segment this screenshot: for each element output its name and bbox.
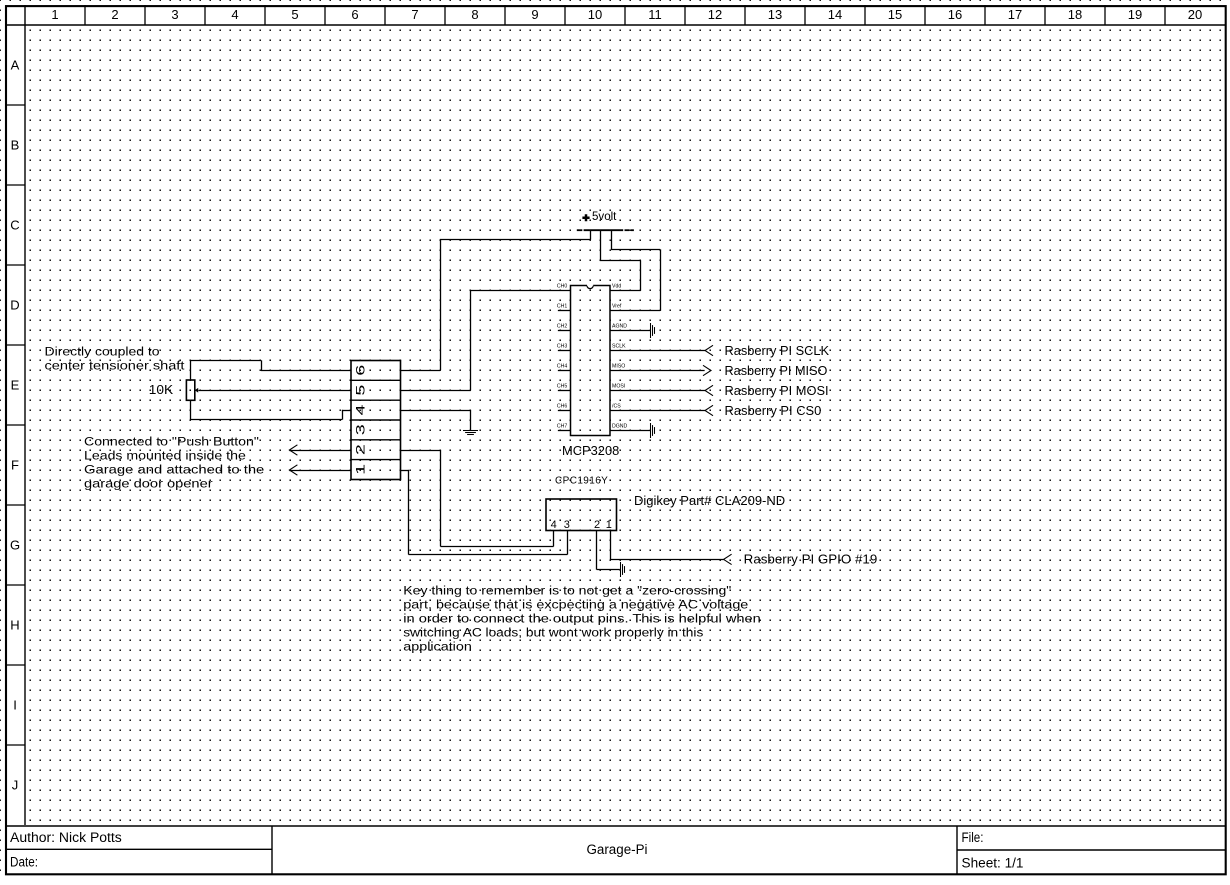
svg-text:Connected to "Push Button": Connected to "Push Button"	[84, 435, 259, 449]
svg-text:10: 10	[588, 7, 602, 22]
svg-text:center tensioner shaft: center tensioner shaft	[45, 359, 186, 373]
svg-text:2: 2	[111, 7, 118, 22]
svg-text:15: 15	[888, 7, 902, 22]
wire U1 pin CH2 stub	[558, 330, 571, 332]
svg-text:File:: File:	[962, 830, 984, 845]
arrow output MISO	[703, 365, 711, 375]
svg-text:20: 20	[1188, 7, 1202, 22]
svg-text:9: 9	[531, 7, 538, 22]
svg-text:I: I	[13, 698, 17, 713]
wire pot bottom run	[190, 419, 342, 421]
wire J1 pin6 left	[261, 370, 351, 372]
svg-text:Author: Nick Potts: Author: Nick Potts	[10, 830, 122, 845]
wire DGND pin	[610, 430, 650, 432]
wire jog up to pin4	[342, 410, 344, 420]
svg-text:MOSI: MOSI	[612, 384, 625, 390]
wire J1 pin4 right	[400, 410, 470, 412]
svg-text:2: 2	[353, 444, 367, 456]
wire pot bottom lead	[190, 400, 192, 420]
wire GPIO19	[610, 559, 724, 561]
title block	[5, 826, 1226, 874]
svg-text:CPC1916Y: CPC1916Y	[555, 475, 608, 486]
svg-text:Key thing to remember is to no: Key thing to remember is to not get a "z…	[403, 584, 731, 598]
ground DGND	[651, 423, 655, 438]
svg-text:MCP3208: MCP3208	[562, 444, 619, 458]
wire U1 pin CH3 stub	[558, 350, 571, 352]
svg-text:13: 13	[768, 7, 782, 22]
svg-text:14: 14	[828, 7, 842, 22]
svg-text:part, because that is excpecti: part, because that is excpecting a negat…	[403, 598, 748, 612]
svg-text:5: 5	[291, 7, 298, 22]
svg-text:Leads mounted inside the: Leads mounted inside the	[84, 449, 246, 463]
svg-text:Digikey Part# CLA209-ND: Digikey Part# CLA209-ND	[634, 494, 785, 508]
svg-text:5: 5	[353, 384, 367, 396]
wire Vdd horizontal	[600, 260, 641, 262]
svg-text:1: 1	[353, 463, 367, 475]
svg-text:18: 18	[1068, 7, 1082, 22]
svg-text:CH3: CH3	[557, 344, 567, 350]
arrow input SCLK	[705, 345, 713, 355]
wire to pot top	[190, 360, 261, 362]
wire drop to ground	[470, 410, 472, 430]
wire vcc drop to J1 pin6	[440, 239, 442, 370]
svg-text:CH6: CH6	[557, 404, 567, 410]
svg-text:application: application	[403, 640, 472, 654]
wire SCLK	[610, 350, 705, 352]
svg-text:5volt: 5volt	[592, 209, 617, 223]
potentiometer R1 10K body	[186, 380, 194, 400]
wire U1 pin CH1 stub	[558, 310, 571, 312]
wire Vdd pin	[610, 290, 641, 292]
wire to ground	[597, 569, 620, 571]
wire J1 pin5 right	[400, 390, 470, 392]
ground AGND	[651, 323, 655, 338]
svg-text:DGND: DGND	[612, 424, 628, 430]
wire run to U2 pin4	[440, 546, 553, 548]
svg-text:Vdd: Vdd	[612, 284, 621, 290]
power +5V symbol	[577, 209, 634, 230]
note push button	[84, 435, 264, 491]
wire vcc horizontal run	[440, 239, 590, 241]
wire jog up	[261, 360, 263, 370]
svg-text:AGND: AGND	[612, 324, 627, 330]
svg-text:16: 16	[948, 7, 962, 22]
svg-text:10K: 10K	[149, 382, 174, 397]
svg-text:G: G	[10, 538, 20, 553]
arrow input J1 pin2	[289, 445, 297, 455]
svg-text:CH4: CH4	[557, 364, 567, 370]
note zero crossing	[403, 584, 761, 654]
wire J1 pin2 right	[400, 450, 440, 452]
wire J1 pin1 right	[400, 470, 408, 472]
opto-relay U2 CPC1916Y body	[546, 499, 617, 531]
svg-text:/CS: /CS	[612, 404, 621, 410]
svg-text:Rasberry PI GPIO #19: Rasberry PI GPIO #19	[744, 553, 878, 567]
svg-text:B: B	[11, 138, 20, 153]
svg-text:3: 3	[564, 519, 570, 531]
wire vcc tap to Vdd	[600, 230, 602, 261]
note directly coupled	[45, 345, 186, 373]
svg-text:4: 4	[551, 519, 557, 531]
wire J1 pin4 left stub	[342, 410, 351, 412]
svg-text:Rasberry PI MISO: Rasberry PI MISO	[725, 364, 828, 378]
ground U2 pin2	[621, 562, 625, 577]
svg-text:Garage and attached to the: Garage and attached to the	[84, 463, 264, 477]
svg-text:Rasberry PI SCLK: Rasberry PI SCLK	[725, 344, 830, 358]
wire J1 pin1 left	[289, 470, 351, 472]
svg-text:1: 1	[51, 7, 58, 22]
wire /CS	[610, 410, 705, 412]
svg-text:Rasberry PI MOSI: Rasberry PI MOSI	[725, 384, 829, 398]
svg-text:CH2: CH2	[557, 324, 567, 330]
svg-text:MISO: MISO	[612, 364, 625, 370]
wire U1 pin CH4 stub	[558, 370, 571, 372]
wire vcc tap to Vref	[611, 230, 613, 250]
svg-text:H: H	[10, 618, 19, 633]
svg-text:Vref: Vref	[612, 304, 622, 310]
svg-text:Sheet: 1/1: Sheet: 1/1	[962, 855, 1024, 870]
arrow input MOSI	[705, 385, 713, 395]
svg-text:6: 6	[351, 7, 358, 22]
svg-text:3: 3	[353, 424, 367, 436]
svg-text:J: J	[12, 778, 19, 793]
wire pot top lead	[190, 360, 192, 380]
arrow input GPIO19	[724, 554, 732, 564]
svg-text:7: 7	[411, 7, 418, 22]
svg-text:garage door opener: garage door opener	[84, 477, 213, 491]
svg-text:CH7: CH7	[557, 424, 567, 430]
svg-text:A: A	[11, 58, 20, 73]
op-amp U1 MCP3208 body	[571, 286, 611, 436]
svg-text:8: 8	[471, 7, 478, 22]
wire drop	[408, 470, 410, 555]
svg-text:in order to connect the output: in order to connect the output pins. Thi…	[403, 612, 761, 626]
wire J1 pin2 left	[289, 450, 351, 452]
ground GND1	[463, 431, 478, 435]
svg-text:switching AC loads, but wont w: switching AC loads, but wont work proper…	[403, 626, 703, 640]
arrow input J1 pin1	[289, 465, 297, 475]
wire run to U2 pin3	[408, 554, 567, 556]
wire U2 pin3 stub	[567, 530, 569, 554]
wire Vref horizontal	[611, 249, 660, 251]
svg-text:CH0: CH0	[557, 284, 567, 290]
svg-text:11: 11	[648, 7, 662, 22]
wire U1 pin CH5 stub	[558, 390, 571, 392]
wire AGND pin	[610, 330, 650, 332]
wire riser to CH0	[470, 290, 472, 390]
wire wiper to J1 pin5	[198, 390, 351, 392]
wire U1 pin CH7 stub	[558, 430, 571, 432]
connector J1 6-pin header	[351, 361, 401, 480]
svg-text:CH5: CH5	[557, 384, 567, 390]
svg-text:3: 3	[171, 7, 178, 22]
svg-text:12: 12	[708, 7, 722, 22]
svg-text:CH1: CH1	[557, 304, 567, 310]
wire J1 pin6 right stub	[400, 370, 440, 372]
svg-text:SCLK: SCLK	[612, 344, 626, 350]
svg-text:2: 2	[594, 519, 600, 531]
svg-text:Date:: Date:	[10, 854, 38, 869]
svg-text:F: F	[11, 458, 19, 473]
svg-text:19: 19	[1128, 7, 1142, 22]
svg-text:1: 1	[606, 519, 612, 531]
arrow input CS0	[705, 405, 713, 415]
wire to CH0 pin	[470, 290, 570, 292]
svg-text:E: E	[11, 378, 20, 393]
wire U1 pin CH6 stub	[558, 410, 571, 412]
wire MOSI	[610, 390, 705, 392]
R1 wiper arrow	[195, 388, 198, 392]
wire U2 pin2 stub	[596, 530, 598, 569]
svg-text:Directly coupled to: Directly coupled to	[45, 345, 160, 359]
svg-text:17: 17	[1008, 7, 1022, 22]
svg-text:D: D	[10, 298, 19, 313]
svg-text:C: C	[10, 218, 19, 233]
wire drop	[440, 450, 442, 547]
wire Vref drop	[660, 249, 662, 310]
wire Vref pin	[610, 310, 660, 312]
wire U2 pin4 stub	[553, 530, 555, 546]
svg-text:4: 4	[353, 404, 367, 416]
wire Vdd drop	[640, 260, 642, 290]
svg-text:4: 4	[231, 7, 238, 22]
wire vcc tap to bus	[590, 230, 592, 240]
svg-text:Rasberry PI CS0: Rasberry PI CS0	[725, 404, 822, 418]
wire MISO	[610, 370, 705, 372]
wire U2 pin1 stub	[610, 530, 612, 559]
svg-text:6: 6	[353, 364, 367, 376]
svg-text:Garage-Pi: Garage-Pi	[587, 842, 648, 857]
